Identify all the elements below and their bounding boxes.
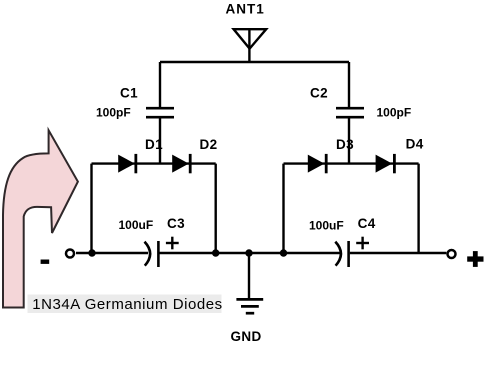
wire C1 upper stub xyxy=(159,62,161,108)
ground symbol xyxy=(236,299,263,313)
wire bottom row segment 3 xyxy=(350,252,447,254)
wire left branch right vertical xyxy=(214,164,216,253)
wire bottom row segment 2 xyxy=(160,252,341,254)
svg-text:100uF: 100uF xyxy=(119,218,154,232)
svg-text:D2: D2 xyxy=(200,137,218,152)
junction dot right-inner xyxy=(280,249,287,256)
diode D2 xyxy=(172,154,190,173)
wire left branch left vertical xyxy=(90,164,92,253)
terminal plus (open circle) xyxy=(448,250,456,258)
wire C1 lower stub xyxy=(159,117,161,163)
capacitor C2 xyxy=(336,108,364,117)
svg-text:D3: D3 xyxy=(336,137,354,152)
wire right branch right vertical xyxy=(417,164,419,253)
wire right diode row xyxy=(284,162,419,164)
diode D1 xyxy=(118,154,136,173)
junction dot left-inner xyxy=(212,249,219,256)
bent arrow callout (pink) xyxy=(3,130,78,307)
svg-text:C3: C3 xyxy=(167,216,185,231)
wire left diode row xyxy=(92,162,216,164)
svg-text:ANT1: ANT1 xyxy=(226,2,265,17)
wire C2 upper stub xyxy=(348,62,350,108)
minus sign xyxy=(41,260,50,264)
svg-text:1N34A Germanium Diodes: 1N34A Germanium Diodes xyxy=(32,296,223,313)
terminal minus (open circle) xyxy=(66,250,74,258)
svg-text:D4: D4 xyxy=(406,137,424,152)
capacitor C3 (polarized) xyxy=(145,237,179,267)
wire bottom row segment 1 xyxy=(76,252,148,254)
svg-text:C2: C2 xyxy=(310,86,328,101)
wire top horizontal xyxy=(160,61,349,63)
plus sign xyxy=(467,251,483,267)
label background for 1N34A text xyxy=(28,295,222,314)
svg-text:100uF: 100uF xyxy=(309,219,344,233)
svg-text:100pF: 100pF xyxy=(377,105,412,119)
wire gnd stub xyxy=(248,253,250,299)
diode D4 xyxy=(376,154,395,173)
wire C2 lower stub xyxy=(348,117,350,163)
capacitor C4 (polarized) xyxy=(335,237,369,267)
svg-text:GND: GND xyxy=(231,329,262,344)
capacitor C1 xyxy=(146,108,174,117)
diode D3 xyxy=(308,154,326,173)
antenna ANT1 xyxy=(234,29,267,62)
svg-text:100pF: 100pF xyxy=(96,105,131,119)
svg-text:D1: D1 xyxy=(145,137,163,152)
junction dot left xyxy=(88,249,95,256)
junction dot gnd xyxy=(245,249,252,256)
svg-text:C4: C4 xyxy=(358,216,376,231)
wire right branch left vertical xyxy=(282,164,284,253)
svg-text:C1: C1 xyxy=(120,86,138,101)
